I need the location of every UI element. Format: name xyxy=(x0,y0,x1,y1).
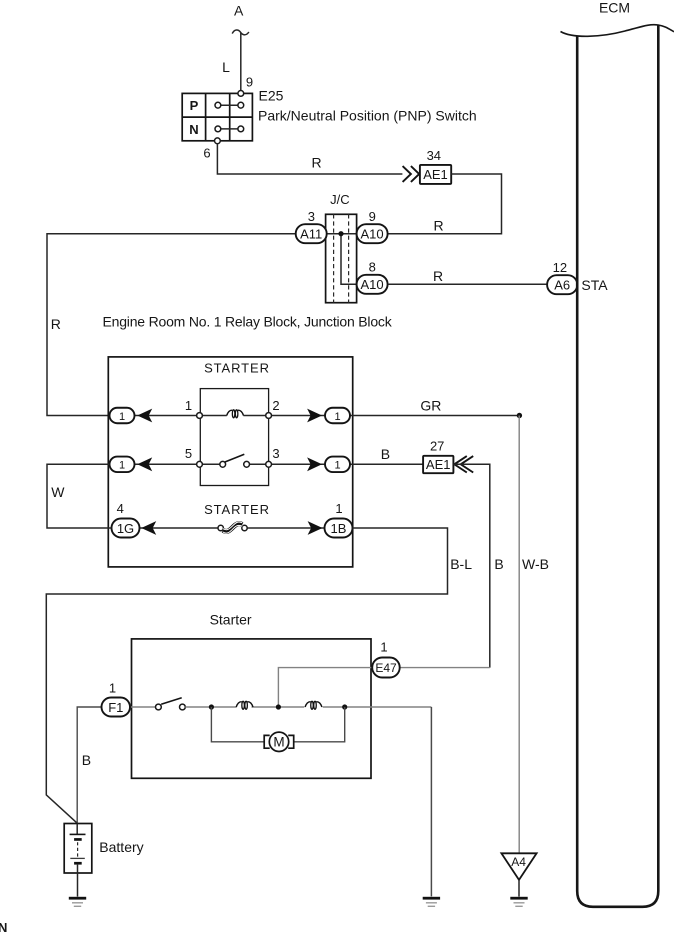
junction connector AE1 (27) xyxy=(423,456,453,473)
svg-text:34: 34 xyxy=(427,148,441,163)
relay coil L1 xyxy=(227,410,244,415)
ground (battery) xyxy=(69,897,86,907)
svg-text:Park/Neutral Position (PNP) Sw: Park/Neutral Position (PNP) Switch xyxy=(258,108,477,124)
battery wire to ground xyxy=(77,865,79,897)
wire E47 branch xyxy=(278,668,372,707)
solenoid coil 1 xyxy=(236,702,253,707)
svg-text:A10: A10 xyxy=(361,277,384,292)
svg-text:6: 6 xyxy=(203,146,210,161)
svg-text:1: 1 xyxy=(334,460,340,472)
svg-text:Battery: Battery xyxy=(99,839,143,855)
battery cell link (dashed) xyxy=(77,842,79,856)
svg-text:1: 1 xyxy=(185,398,192,413)
wire AE1 34 to A10 pin 9 (R) xyxy=(388,174,502,234)
svg-text:GR: GR xyxy=(420,398,441,414)
arrow right row3 xyxy=(308,521,323,535)
connector F1 xyxy=(102,698,131,717)
arrow left row3 xyxy=(141,521,156,535)
svg-text:Engine Room No. 1 Relay Block,: Engine Room No. 1 Relay Block, Junction … xyxy=(103,314,393,330)
wire row2 left xyxy=(135,463,197,465)
junction dot xyxy=(276,704,281,709)
svg-text:A6: A6 xyxy=(554,278,570,293)
svg-text:B: B xyxy=(381,446,390,462)
relay block body xyxy=(108,357,352,567)
wire F1 to switch xyxy=(130,706,156,708)
junction connector AE1 (34) xyxy=(420,165,451,184)
svg-text:W: W xyxy=(51,484,65,500)
connector 1 (row1 right) xyxy=(325,408,350,424)
svg-text:9: 9 xyxy=(369,209,376,224)
wire A10 pin 8 to A6 (R) xyxy=(388,283,547,285)
wire to ground xyxy=(430,707,432,896)
starter body xyxy=(132,639,372,778)
svg-text:8: 8 xyxy=(369,259,376,274)
svg-text:1: 1 xyxy=(119,460,125,472)
chevrons into AE1 27 xyxy=(454,456,473,472)
svg-text:1: 1 xyxy=(109,680,116,695)
svg-text:R: R xyxy=(433,268,443,284)
svg-text:1B: 1B xyxy=(331,521,347,536)
svg-text:1: 1 xyxy=(334,411,340,423)
wire row2 pin5 to switch xyxy=(203,463,220,465)
junction dot xyxy=(209,704,214,709)
svg-text:A11: A11 xyxy=(300,227,322,242)
svg-text:B: B xyxy=(82,752,91,768)
connector 1G xyxy=(112,519,140,538)
svg-text:A: A xyxy=(234,3,244,19)
wire A4 to ground xyxy=(518,880,520,897)
svg-text:STARTER: STARTER xyxy=(204,502,270,517)
contact row N xyxy=(221,128,238,130)
arrow right row1 xyxy=(307,409,322,423)
pin 6 terminal xyxy=(215,138,221,144)
svg-text:A4: A4 xyxy=(511,855,526,869)
wire pin 6 to AE1 (R) xyxy=(217,144,402,174)
ECM body outline xyxy=(577,25,658,907)
svg-text:1: 1 xyxy=(119,411,125,423)
arrow left row1 xyxy=(137,409,152,423)
wire motor branch right xyxy=(294,707,345,742)
wire A11 row through J/C xyxy=(327,233,357,235)
svg-text:STARTER: STARTER xyxy=(204,360,270,375)
svg-text:A10: A10 xyxy=(361,227,384,242)
junction block J/C body xyxy=(326,214,357,302)
connector A10 pin 9 xyxy=(357,224,388,243)
connector A10 pin 8 xyxy=(357,275,388,294)
svg-text:N: N xyxy=(189,122,198,137)
svg-text:1: 1 xyxy=(335,501,342,516)
wire row1 pin1 to coil xyxy=(203,415,227,417)
connector 1B xyxy=(325,519,353,538)
wire row1 coil to pin2 xyxy=(243,415,265,417)
svg-text:B-L: B-L xyxy=(450,556,472,572)
wire row2 switch to pin3 xyxy=(250,463,266,465)
battery plate long xyxy=(70,857,85,859)
svg-text:AE1: AE1 xyxy=(426,457,451,472)
svg-text:3: 3 xyxy=(272,446,279,461)
relay switch blade xyxy=(225,454,244,462)
svg-text:1: 1 xyxy=(380,640,387,655)
svg-text:N: N xyxy=(0,920,7,933)
wire F1 to battery (B) xyxy=(77,707,101,823)
starter switch contacts xyxy=(156,704,162,710)
svg-text:3: 3 xyxy=(308,209,315,224)
svg-text:4: 4 xyxy=(117,501,124,516)
motor brush left xyxy=(264,735,270,748)
wire W-B down to A4 xyxy=(518,416,520,854)
svg-text:9: 9 xyxy=(246,75,253,90)
connector 1 (row2 left) xyxy=(110,457,135,473)
svg-text:R: R xyxy=(51,316,61,332)
wire AE1 27 to E47 (B) xyxy=(453,464,489,667)
svg-text:E25: E25 xyxy=(259,88,284,104)
ground (A4 / ECM) xyxy=(510,897,527,907)
wire A to pin 9 xyxy=(240,33,242,91)
relay switch contacts xyxy=(220,461,226,467)
svg-text:F1: F1 xyxy=(108,700,123,715)
svg-text:B: B xyxy=(494,556,503,572)
ground (starter) xyxy=(423,897,440,907)
battery plate short xyxy=(74,838,82,841)
PNP switch E25 body xyxy=(182,93,252,140)
solenoid coil 2 xyxy=(305,702,322,707)
splice dot GR/W-B xyxy=(517,413,522,418)
svg-text:L: L xyxy=(222,59,230,75)
svg-text:5: 5 xyxy=(185,446,192,461)
contact row P xyxy=(221,104,238,106)
battery wire in xyxy=(76,824,78,835)
wire inside J/C down to pin 8 xyxy=(341,234,357,285)
wire A11 to relay block (R) xyxy=(47,234,296,416)
connector A6 (STA) xyxy=(547,275,577,294)
arrow right row2 xyxy=(307,457,322,471)
connector 1 (row2 right) xyxy=(325,457,350,473)
wire B-L from 1B to battery xyxy=(46,528,447,823)
break squiggle xyxy=(232,30,249,35)
svg-text:R: R xyxy=(311,155,321,171)
svg-text:1G: 1G xyxy=(117,521,134,536)
battery plate long + xyxy=(70,833,86,835)
motor brush right xyxy=(288,735,294,748)
svg-text:W-B: W-B xyxy=(522,556,549,572)
junction dot xyxy=(342,704,347,709)
wire W loop (row2 to 1G) xyxy=(47,464,112,528)
svg-text:ECM: ECM xyxy=(599,0,630,16)
ECM torn-edge top xyxy=(561,25,674,37)
wire main row xyxy=(185,706,431,708)
wire motor branch left xyxy=(211,707,264,742)
svg-text:R: R xyxy=(433,218,443,234)
wire to E47 xyxy=(400,667,490,669)
motor M xyxy=(269,732,288,751)
junction dot xyxy=(338,231,343,236)
svg-text:2: 2 xyxy=(272,398,279,413)
chevrons into AE1 34 xyxy=(403,166,420,182)
wire row3 right xyxy=(247,527,324,529)
svg-text:12: 12 xyxy=(553,260,567,275)
starter switch blade xyxy=(161,698,182,705)
svg-text:Starter: Starter xyxy=(210,612,252,628)
wire row1 right (GR) xyxy=(272,415,520,417)
starter relay coil/contact box xyxy=(200,389,268,486)
svg-text:M: M xyxy=(273,735,284,750)
wire row1 left xyxy=(135,415,197,417)
wire row2 right (B) xyxy=(272,463,424,465)
svg-text:AE1: AE1 xyxy=(423,167,448,182)
battery plate short - xyxy=(74,862,82,865)
battery body xyxy=(64,824,92,874)
connector A4 xyxy=(501,853,536,880)
connector E47 xyxy=(372,658,400,678)
svg-text:STA: STA xyxy=(581,277,608,293)
pin 9 terminal xyxy=(238,91,244,97)
connector 1 (row1 left) xyxy=(110,408,135,424)
svg-text:E47: E47 xyxy=(375,661,397,675)
connector A11 xyxy=(296,224,327,243)
fusible link STARTER xyxy=(218,525,223,530)
arrow left row2 xyxy=(137,457,152,471)
svg-text:27: 27 xyxy=(430,439,444,454)
svg-text:P: P xyxy=(190,98,199,113)
svg-text:J/C: J/C xyxy=(330,192,350,207)
wire row3 left xyxy=(140,527,219,529)
